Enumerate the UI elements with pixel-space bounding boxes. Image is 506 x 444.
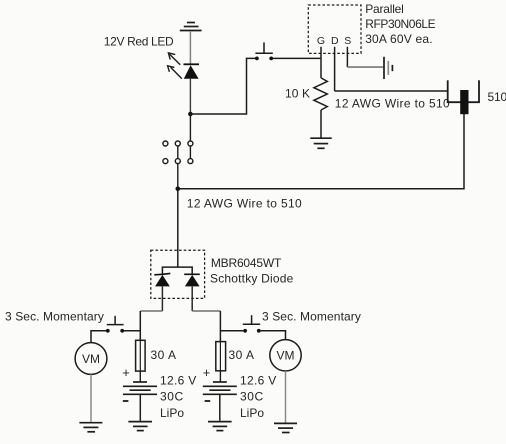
transistor Q1 (parallel RFP30N06LE MOSFETs) dashed outline	[308, 5, 361, 53]
wire SW3 to VM2	[261, 331, 286, 340]
wire VM1 to GND3	[90, 374, 92, 422]
voltmeter VM2	[270, 340, 301, 371]
svg-text:3 Sec. Momentary: 3 Sec. Momentary	[5, 309, 104, 323]
svg-text:Parallel: Parallel	[365, 2, 403, 16]
wire node A to connector J2	[189, 114, 191, 141]
wire node A to switch SW1	[190, 58, 255, 114]
svg-text:12V Red LED: 12V Red LED	[104, 34, 174, 48]
ground GND5	[208, 422, 232, 431]
pushbutton SW3	[220, 315, 260, 332]
svg-text:12.6 V: 12.6 V	[240, 374, 277, 388]
ground GND6	[274, 423, 297, 432]
svg-text:10 K: 10 K	[285, 87, 310, 101]
label - (left)	[123, 400, 129, 402]
diode D2 (left Schottky)	[154, 273, 170, 286]
svg-text:S: S	[344, 35, 351, 47]
pushbutton SW1	[255, 42, 273, 60]
svg-text:30A 60V ea.: 30A 60V ea.	[365, 32, 433, 46]
wire node B to diode box	[177, 189, 179, 267]
label 12.6 V 30C LiPo (left)	[160, 374, 197, 420]
svg-text:30C: 30C	[240, 390, 264, 404]
wire SW2 to VM1	[91, 331, 106, 343]
LED D1	[168, 53, 199, 79]
wire common cathode rail	[162, 267, 192, 274]
label pins G D S	[317, 35, 351, 47]
resistor R1	[314, 58, 327, 137]
svg-text:MBR6045WT: MBR6045WT	[211, 256, 282, 270]
wire LED to node A	[189, 79, 191, 114]
svg-text:VM: VM	[82, 352, 100, 366]
wire D3 to fuse F2 branch	[192, 286, 220, 341]
connector J1 510	[447, 80, 480, 114]
svg-text:G: G	[317, 35, 325, 47]
label Parallel RFP30N06LE 30A 60V ea.	[365, 2, 435, 46]
pin S wire	[346, 47, 348, 67]
ground GND3	[79, 423, 102, 432]
node A junction dot	[188, 112, 193, 117]
pin D wire	[334, 47, 336, 91]
svg-text:30 A: 30 A	[229, 348, 255, 362]
svg-text:12.6 V: 12.6 V	[160, 374, 197, 388]
diode U2 MBR6045WT dashed outline	[151, 250, 205, 298]
label MBR6045WT Schottky Diode	[210, 256, 294, 286]
wire J1 down and across to node B	[178, 114, 464, 189]
pushbutton SW2	[106, 316, 140, 333]
wire drain to connector J1	[335, 90, 448, 92]
ground GND1 (top, above LED)	[180, 23, 202, 31]
battery BT1	[123, 382, 157, 394]
wire J2 to node B	[177, 164, 179, 189]
connector J2 (6 pads with jumpers)	[163, 141, 193, 164]
fuse F1	[136, 340, 146, 382]
node B junction dot	[176, 187, 181, 192]
svg-text:12 AWG Wire to 510: 12 AWG Wire to 510	[187, 196, 302, 210]
svg-text:30C: 30C	[160, 390, 184, 404]
wire VM2 to GND6	[285, 371, 287, 423]
svg-text:12 AWG Wire to 510: 12 AWG Wire to 510	[335, 96, 450, 110]
wire source to chassis ground	[347, 66, 383, 68]
wire BT2 to GND5	[219, 394, 221, 421]
diode D3 (right Schottky)	[184, 274, 200, 286]
wire SW1 to gate node	[273, 57, 321, 59]
battery BT2	[203, 382, 237, 394]
wire BT1 to GND4	[139, 394, 141, 421]
wire D2 to fuse F1 branch	[140, 286, 162, 340]
svg-text:Schottky Diode: Schottky Diode	[210, 272, 294, 286]
label - (right)	[205, 400, 211, 402]
svg-text:RFP30N06LE: RFP30N06LE	[365, 17, 435, 31]
fuse F2	[216, 342, 226, 382]
svg-text:+: +	[203, 365, 211, 380]
svg-text:3 Sec. Momentary: 3 Sec. Momentary	[262, 309, 361, 323]
svg-text:30 A: 30 A	[151, 348, 177, 362]
chassis ground (source)	[384, 57, 392, 79]
ground GND4	[128, 422, 152, 431]
svg-text:510: 510	[488, 90, 506, 104]
svg-text:VM: VM	[277, 349, 295, 363]
voltmeter VM1	[75, 343, 107, 375]
label 12.6 V 30C LiPo (right)	[240, 374, 277, 420]
wire GND1 to LED	[189, 31, 191, 64]
svg-text:+: +	[122, 365, 130, 380]
svg-text:D: D	[331, 35, 339, 47]
svg-text:LiPo: LiPo	[160, 406, 184, 420]
pin G wire	[320, 47, 322, 59]
ground GND2 (below R1)	[310, 138, 331, 148]
svg-text:LiPo: LiPo	[240, 406, 264, 420]
